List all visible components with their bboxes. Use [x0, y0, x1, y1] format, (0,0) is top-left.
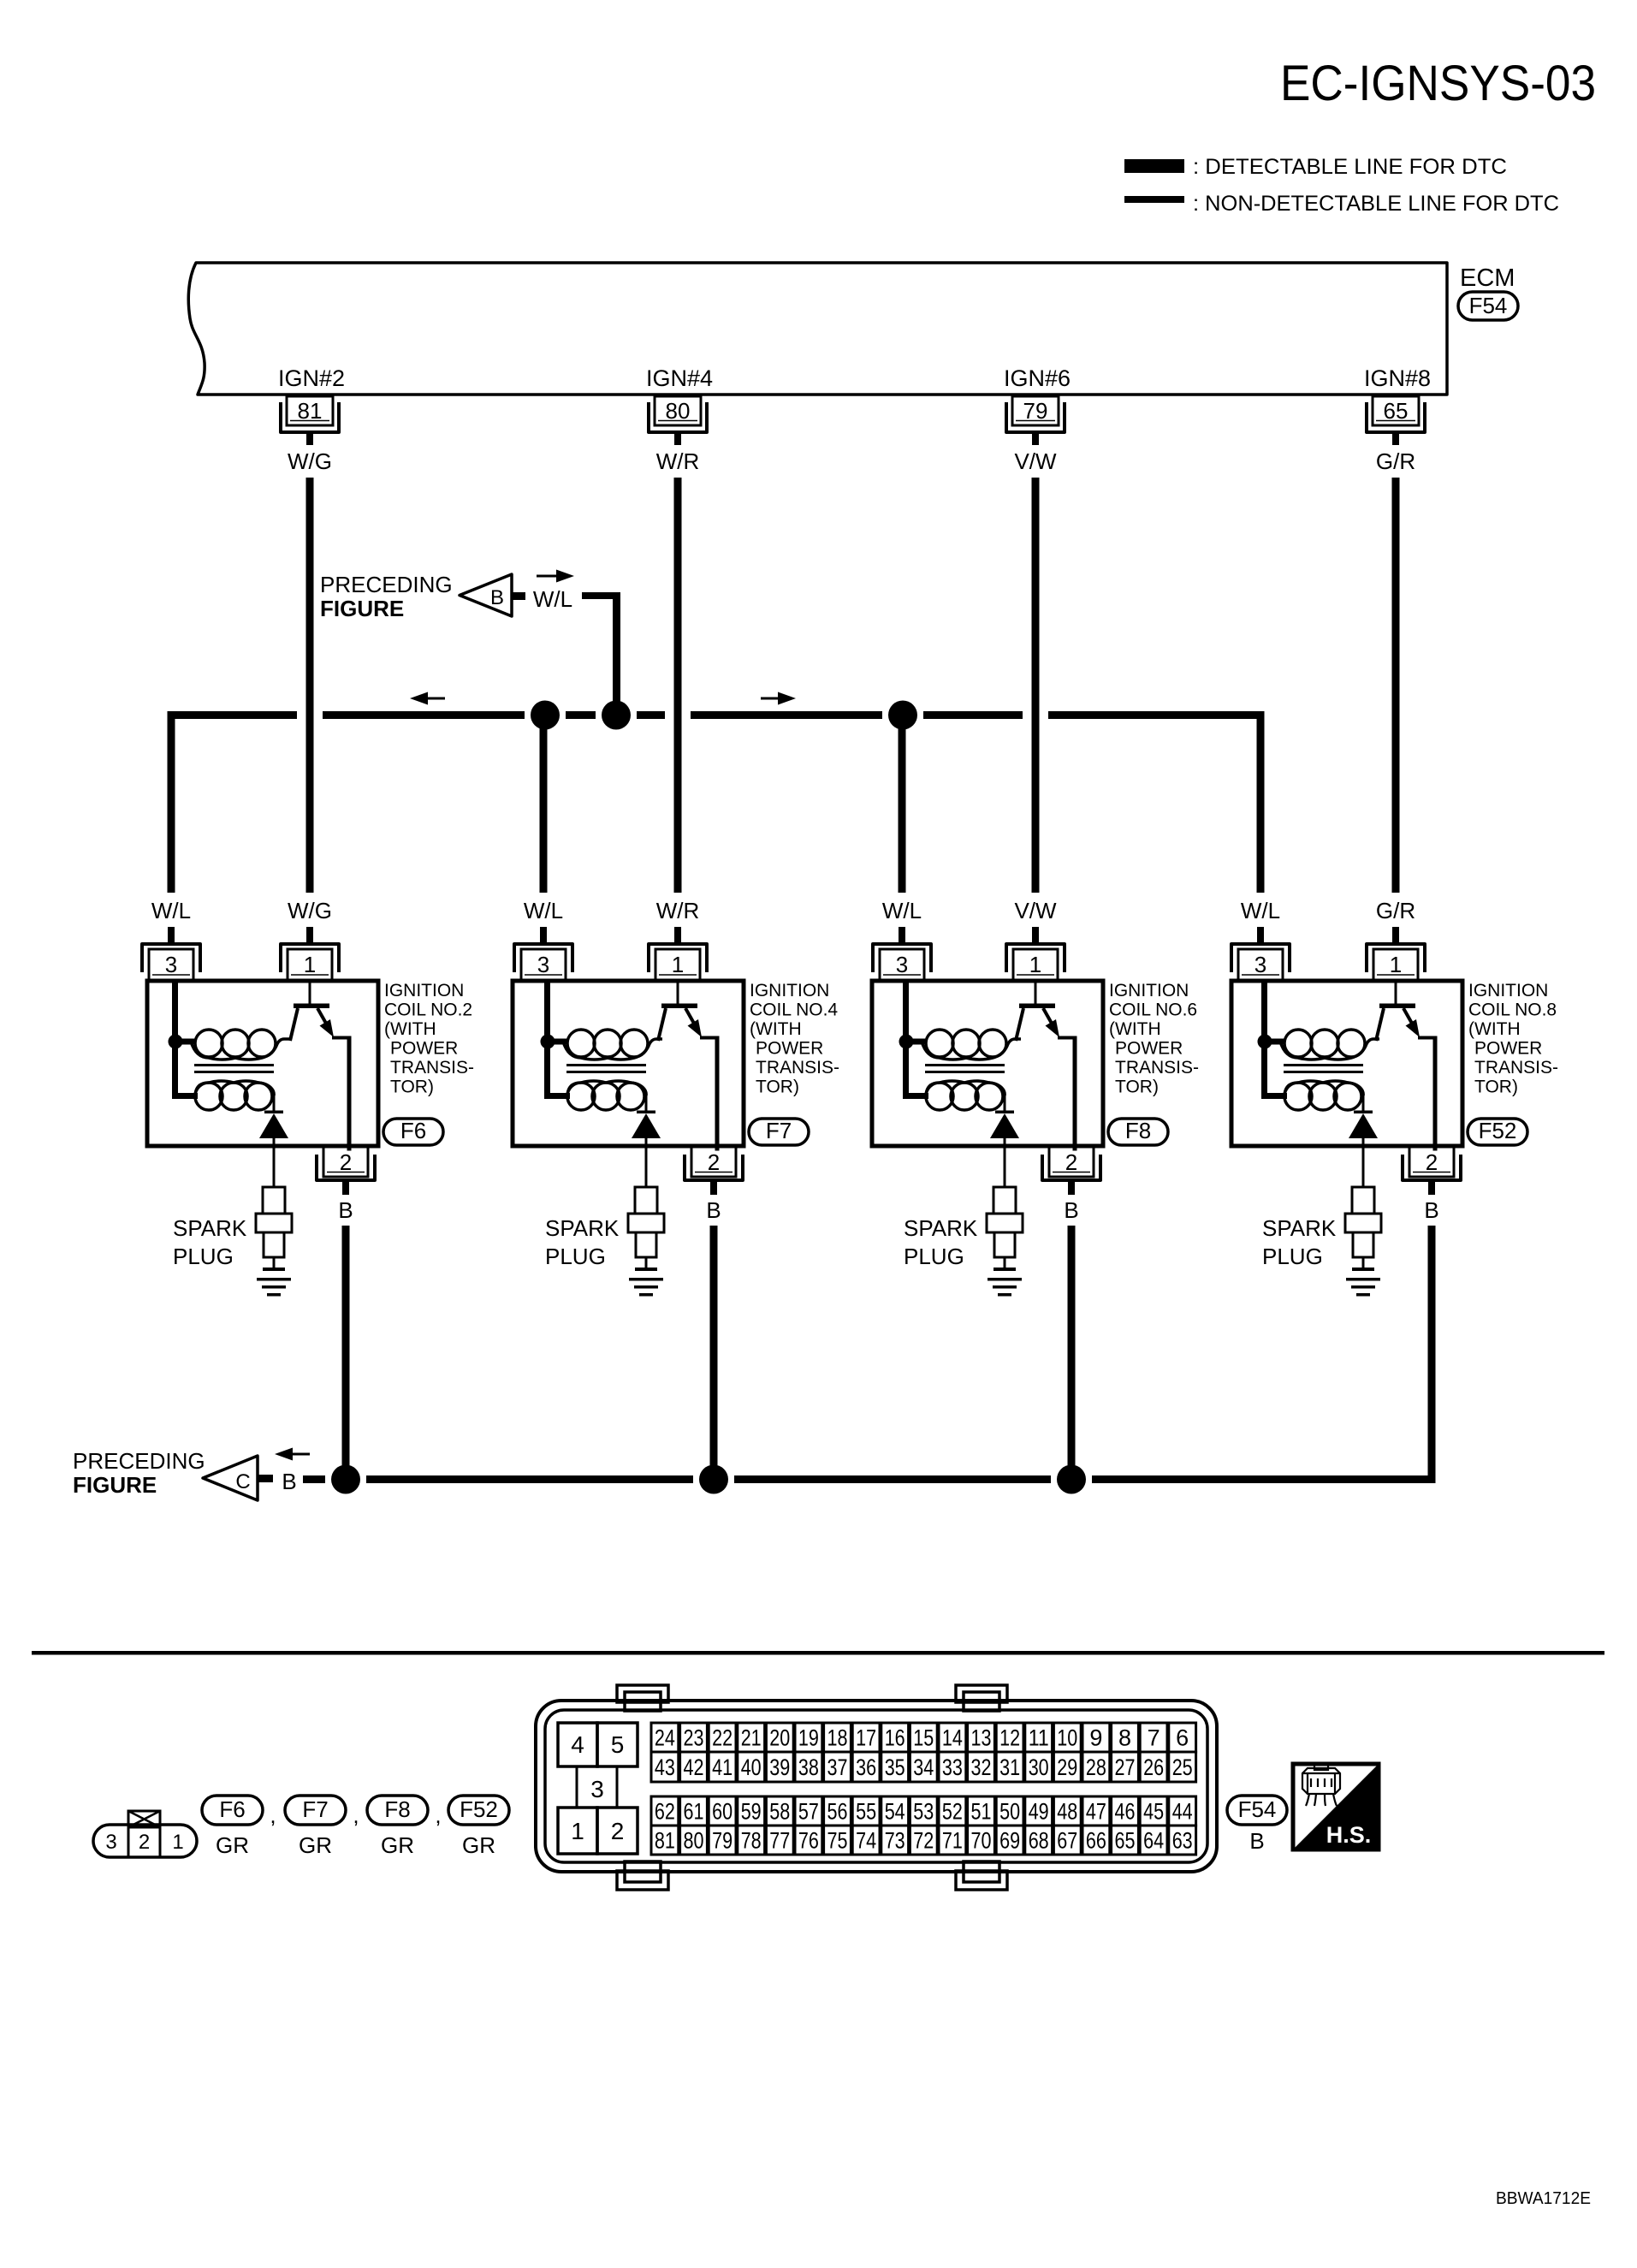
transformer primary winding coil no.8: [1280, 1030, 1379, 1060]
junction dot W/L bus from preceding figure: [602, 701, 631, 730]
svg-text:56: 56: [827, 1799, 848, 1825]
wire label W/L col 3: [882, 898, 922, 923]
svg-text:49: 49: [1029, 1799, 1049, 1825]
svg-text:75: 75: [827, 1828, 848, 1854]
coil no.4 label: [750, 981, 839, 1097]
svg-text:51: 51: [971, 1799, 992, 1825]
diode coil no.4: [632, 1111, 661, 1187]
svg-text:65: 65: [1384, 398, 1409, 424]
svg-text:1: 1: [304, 952, 316, 977]
wire label W/L col 4: [1241, 898, 1280, 923]
svg-text:W/L: W/L: [1241, 898, 1280, 923]
svg-text:F54: F54: [1238, 1796, 1277, 1822]
spark plug no.6 label: [904, 1215, 978, 1269]
svg-text:B: B: [1064, 1197, 1078, 1223]
coil no.2 pin 1 connector: [281, 927, 339, 980]
svg-text:12: 12: [999, 1725, 1020, 1751]
svg-text:TOR): TOR): [1115, 1078, 1159, 1097]
svg-text:B: B: [338, 1197, 353, 1223]
svg-text:33: 33: [942, 1754, 963, 1780]
connector label F52 GR: [448, 1796, 509, 1858]
svg-text:1: 1: [571, 1818, 584, 1844]
wire V/W from ECM pin 79 to coil pin 1: [1032, 478, 1040, 893]
ECM connector F54 label: [1458, 292, 1518, 320]
coil no.8 secondary to diode wire: [1362, 1092, 1365, 1112]
svg-text:24: 24: [655, 1725, 675, 1751]
svg-text:7: 7: [1148, 1725, 1160, 1751]
transformer core coil no.8: [1284, 1064, 1363, 1073]
coil no.2 secondary to diode wire: [273, 1092, 276, 1112]
svg-text:45: 45: [1143, 1799, 1164, 1825]
ECM pin 79 IGN#6: [1004, 365, 1071, 445]
wire label W/G lower: [288, 898, 332, 923]
wire label V/W lower: [1014, 898, 1057, 923]
svg-text:F52: F52: [1479, 1118, 1517, 1143]
svg-text:,: ,: [435, 1802, 441, 1828]
svg-text:32: 32: [971, 1754, 992, 1780]
svg-text:8: 8: [1118, 1725, 1131, 1751]
svg-text:20: 20: [769, 1725, 790, 1751]
svg-text:18: 18: [827, 1725, 848, 1751]
svg-text:IGNITION: IGNITION: [750, 981, 829, 1000]
svg-text:COIL NO.8: COIL NO.8: [1468, 1000, 1557, 1020]
svg-text:GR: GR: [462, 1832, 495, 1858]
svg-text:G/R: G/R: [1376, 448, 1415, 474]
ECM connector F54 GR label: [1227, 1796, 1287, 1854]
comma separator: [270, 1802, 276, 1828]
svg-text:G/R: G/R: [1376, 898, 1415, 923]
ignition coil no.8 box: [1231, 981, 1462, 1146]
svg-text:W/R: W/R: [656, 898, 700, 923]
svg-text:B: B: [706, 1197, 721, 1223]
svg-text:FIGURE: FIGURE: [73, 1472, 157, 1498]
svg-text:IGN#4: IGN#4: [646, 365, 713, 391]
wire W/L down to coil pin 3 col 1: [168, 711, 175, 893]
svg-text:IGNITION: IGNITION: [1468, 981, 1548, 1000]
svg-text:81: 81: [655, 1828, 675, 1854]
junction dot W/L bus at coil no.6: [888, 701, 917, 730]
svg-text:F7: F7: [302, 1796, 328, 1822]
svg-text:3: 3: [537, 952, 549, 977]
diode coil no.6: [990, 1111, 1019, 1187]
svg-text:TOR): TOR): [390, 1078, 434, 1097]
svg-text:POWER: POWER: [756, 1039, 823, 1059]
svg-text:F52: F52: [460, 1796, 498, 1822]
svg-text:(WITH: (WITH: [750, 1019, 802, 1039]
ignition coil no.4 box: [513, 981, 744, 1146]
svg-text:53: 53: [913, 1799, 934, 1825]
arrow left on W/L bus: [410, 692, 445, 705]
svg-text:73: 73: [885, 1828, 905, 1854]
title EC-IGNSYS-03: [1280, 56, 1596, 111]
svg-text:B: B: [1249, 1828, 1264, 1854]
svg-text:31: 31: [999, 1754, 1020, 1780]
svg-text:H.S.: H.S.: [1326, 1822, 1372, 1848]
svg-text:POWER: POWER: [390, 1039, 458, 1059]
svg-text:34: 34: [913, 1754, 934, 1780]
svg-text:SPARK: SPARK: [1262, 1215, 1337, 1241]
coil no.8 pin 1 connector: [1367, 927, 1425, 980]
ignition coil no.2 box: [147, 981, 378, 1146]
coil no.8 pin 3 connector: [1231, 927, 1290, 980]
svg-text:28: 28: [1086, 1754, 1106, 1780]
svg-text:50: 50: [999, 1799, 1020, 1825]
svg-text:81: 81: [298, 398, 323, 424]
coil no.2 junction dot: [169, 1035, 183, 1049]
svg-text:W/R: W/R: [656, 448, 700, 474]
transformer core coil no.6: [925, 1064, 1005, 1073]
svg-text:TRANSIS-: TRANSIS-: [390, 1058, 474, 1078]
svg-text:55: 55: [856, 1799, 876, 1825]
wire label G/R lower: [1376, 898, 1415, 923]
svg-text:79: 79: [712, 1828, 732, 1854]
svg-text:63: 63: [1172, 1828, 1193, 1854]
svg-text:C: C: [235, 1470, 250, 1493]
ECM pin 65 IGN#8: [1364, 365, 1431, 445]
coil no.4 pin 3 connector: [514, 927, 572, 980]
svg-text:69: 69: [999, 1828, 1020, 1854]
svg-text:30: 30: [1029, 1754, 1049, 1780]
svg-text:3: 3: [1254, 952, 1266, 977]
svg-text:3: 3: [165, 952, 177, 977]
svg-text:(WITH: (WITH: [1468, 1019, 1521, 1039]
power transistor coil no.4: [658, 981, 720, 1151]
svg-text:15: 15: [913, 1725, 934, 1751]
ground spark plug no.8: [1346, 1278, 1380, 1297]
connector label F8 GR: [367, 1796, 428, 1858]
svg-text:TOR): TOR): [1474, 1078, 1518, 1097]
wire label B coil no.2: [338, 1197, 353, 1223]
power transistor coil no.2: [290, 981, 352, 1151]
svg-text:W/L: W/L: [882, 898, 922, 923]
svg-text:68: 68: [1029, 1828, 1049, 1854]
svg-text:46: 46: [1115, 1799, 1136, 1825]
coil no.4 pin 1 connector: [649, 927, 707, 980]
svg-text:V/W: V/W: [1014, 448, 1057, 474]
connector label F6 GR: [202, 1796, 263, 1858]
svg-text:3: 3: [896, 952, 908, 977]
wire W/G from ECM pin 81 to coil pin 1: [306, 478, 314, 893]
svg-text:W/L: W/L: [151, 898, 191, 923]
svg-text:77: 77: [769, 1828, 790, 1854]
coil no.2 pin 2 connector: [317, 1147, 375, 1195]
svg-text:42: 42: [684, 1754, 704, 1780]
coil no.6 label: [1109, 981, 1199, 1097]
wire label B coil no.6: [1064, 1197, 1078, 1223]
comma separator: [353, 1802, 359, 1828]
wire label W/G upper: [288, 448, 332, 474]
spark plug no.4: [628, 1146, 664, 1271]
svg-text:B: B: [490, 586, 504, 609]
svg-text:60: 60: [712, 1799, 732, 1825]
svg-text:GR: GR: [299, 1832, 332, 1858]
svg-text:W/L: W/L: [533, 586, 572, 612]
coil no.6 pin 1 connector: [1006, 927, 1065, 980]
spark plug no.2: [256, 1146, 292, 1271]
svg-text:66: 66: [1086, 1828, 1106, 1854]
wire W/R from ECM pin 80 to coil pin 1: [674, 478, 682, 893]
svg-text:17: 17: [856, 1725, 876, 1751]
spark plug no.8 label: [1262, 1215, 1337, 1269]
wire label W/R upper: [656, 448, 700, 474]
svg-text:61: 61: [684, 1799, 704, 1825]
svg-text:: DETECTABLE LINE FOR DTC: : DETECTABLE LINE FOR DTC: [1193, 155, 1507, 179]
svg-text:1: 1: [1029, 952, 1041, 977]
ECM label: [1460, 264, 1515, 292]
svg-text:1: 1: [1390, 952, 1402, 977]
transformer primary winding coil no.6: [922, 1030, 1021, 1060]
svg-text:67: 67: [1057, 1828, 1077, 1854]
svg-text:78: 78: [741, 1828, 762, 1854]
svg-text:11: 11: [1029, 1725, 1049, 1751]
svg-text:,: ,: [270, 1802, 276, 1828]
ECM connector F54 housing: [536, 1685, 1217, 1890]
svg-text:58: 58: [769, 1799, 790, 1825]
svg-text:14: 14: [942, 1725, 963, 1751]
ECM pin 81 IGN#2: [278, 365, 345, 445]
coil no.6 wire to primary: [906, 1039, 926, 1045]
coil no.6 secondary to diode wire: [1004, 1092, 1006, 1112]
svg-text:PLUG: PLUG: [545, 1244, 606, 1269]
power transistor coil no.6: [1016, 981, 1077, 1151]
transformer core coil no.4: [566, 1064, 646, 1073]
svg-text:35: 35: [885, 1754, 905, 1780]
svg-text:76: 76: [798, 1828, 819, 1854]
svg-text:57: 57: [798, 1799, 819, 1825]
junction dot B bus col 2: [699, 1465, 728, 1494]
svg-text:1: 1: [172, 1831, 183, 1854]
coil no.2 label: [384, 981, 474, 1097]
svg-text:40: 40: [741, 1754, 762, 1780]
svg-text:F8: F8: [384, 1796, 410, 1822]
coil no.6 pin 2 connector: [1042, 1147, 1100, 1195]
svg-text:5: 5: [611, 1731, 625, 1758]
spark plug no.4 label: [545, 1215, 620, 1269]
svg-text:SPARK: SPARK: [904, 1215, 978, 1241]
wire W/L from preceding figure to bus: [582, 592, 620, 719]
svg-text:38: 38: [798, 1754, 819, 1780]
coil no.8 label: [1468, 981, 1558, 1097]
junction dot W/L bus at coil no.4: [531, 701, 560, 730]
wire B from coil no.2 pin 2: [342, 1226, 350, 1483]
svg-text:2: 2: [340, 1149, 352, 1175]
coil no.6 connector label F8: [1108, 1118, 1168, 1145]
svg-text:80: 80: [684, 1828, 704, 1854]
svg-text:3: 3: [105, 1831, 116, 1854]
spark plug no.2 label: [173, 1215, 247, 1269]
coil no.8 junction dot: [1258, 1035, 1272, 1049]
coil no.4 pin 2 connector: [685, 1147, 743, 1195]
svg-text:FIGURE: FIGURE: [320, 596, 404, 621]
coil no.4 wire to primary: [548, 1039, 567, 1045]
wire label V/W upper: [1014, 448, 1057, 474]
svg-text:BBWA1712E: BBWA1712E: [1496, 2189, 1591, 2208]
svg-text:F54: F54: [1469, 293, 1508, 318]
svg-text:PLUG: PLUG: [1262, 1244, 1323, 1269]
svg-text:(WITH: (WITH: [1109, 1019, 1161, 1039]
svg-text:W/L: W/L: [524, 898, 563, 923]
transformer secondary winding coil no.6: [926, 1081, 1005, 1110]
svg-text:3: 3: [590, 1776, 604, 1802]
wire B from coil no.8 pin 2: [1428, 1226, 1436, 1483]
svg-text:43: 43: [655, 1754, 675, 1780]
legend detectable line: [1124, 155, 1507, 179]
svg-text:COIL NO.4: COIL NO.4: [750, 1000, 838, 1020]
svg-text:IGNITION: IGNITION: [1109, 981, 1189, 1000]
ignition coil no.6 box: [872, 981, 1103, 1146]
svg-text:16: 16: [885, 1725, 905, 1751]
svg-text:1: 1: [672, 952, 684, 977]
wire B from coil no.4 pin 2: [710, 1226, 718, 1483]
svg-text:21: 21: [741, 1725, 762, 1751]
svg-text:48: 48: [1057, 1799, 1077, 1825]
coil no.8 pin 2 connector: [1403, 1147, 1461, 1195]
svg-text:23: 23: [684, 1725, 704, 1751]
wire W/L down to coil pin 3 col 4: [1257, 711, 1265, 893]
ground spark plug no.2: [257, 1278, 291, 1297]
svg-text:TRANSIS-: TRANSIS-: [1115, 1058, 1199, 1078]
svg-text:74: 74: [856, 1828, 876, 1854]
svg-text:37: 37: [827, 1754, 848, 1780]
coil no.2 pin 3 connector: [142, 927, 200, 980]
transformer primary winding coil no.4: [563, 1030, 662, 1060]
svg-text:62: 62: [655, 1799, 675, 1825]
svg-text:71: 71: [942, 1828, 963, 1854]
wire label W/L col 2: [524, 898, 563, 923]
coil no.4 internal wire from pin 3: [544, 981, 570, 1099]
svg-text:26: 26: [1143, 1754, 1164, 1780]
svg-text:25: 25: [1172, 1754, 1193, 1780]
junction dot B bus col 1: [331, 1465, 360, 1494]
svg-text:39: 39: [769, 1754, 790, 1780]
svg-text:2: 2: [1426, 1149, 1438, 1175]
wire label W/R lower: [656, 898, 700, 923]
ECM box: [188, 263, 1447, 395]
svg-text:44: 44: [1172, 1799, 1193, 1825]
B bus horizontal: [303, 1475, 1436, 1483]
svg-text:29: 29: [1057, 1754, 1077, 1780]
svg-text:PLUG: PLUG: [173, 1244, 234, 1269]
coil no.6 junction dot: [899, 1035, 914, 1049]
svg-text:PRECEDING: PRECEDING: [320, 572, 453, 597]
svg-text:4: 4: [571, 1731, 584, 1758]
figure code BBWA1712E: [1496, 2189, 1591, 2208]
svg-text:(WITH: (WITH: [384, 1019, 436, 1039]
transformer secondary winding coil no.4: [567, 1081, 646, 1110]
junction dot B bus col 3: [1057, 1465, 1086, 1494]
svg-text:52: 52: [942, 1799, 963, 1825]
svg-text:F8: F8: [1125, 1118, 1151, 1143]
svg-text:B: B: [282, 1469, 296, 1494]
wire label B at preceding figure C: [282, 1469, 296, 1494]
svg-text:SPARK: SPARK: [173, 1215, 247, 1241]
wire B from coil no.6 pin 2: [1068, 1226, 1076, 1483]
svg-text:2: 2: [708, 1149, 720, 1175]
coil no.2 wire to primary: [175, 1039, 195, 1045]
coil no.4 connector label F7: [749, 1118, 809, 1145]
coil no.4 junction dot: [541, 1035, 555, 1049]
svg-text:SPARK: SPARK: [545, 1215, 620, 1241]
svg-text:59: 59: [741, 1799, 762, 1825]
svg-text:64: 64: [1143, 1828, 1164, 1854]
diode coil no.8: [1349, 1111, 1378, 1187]
svg-text:W/G: W/G: [288, 898, 332, 923]
svg-text:GR: GR: [216, 1832, 249, 1858]
svg-text:79: 79: [1023, 398, 1048, 424]
legend non-detectable line: [1124, 192, 1559, 216]
svg-text:TRANSIS-: TRANSIS-: [756, 1058, 839, 1078]
coil no.6 pin 3 connector: [873, 927, 931, 980]
power transistor coil no.8: [1376, 981, 1438, 1151]
ground spark plug no.4: [629, 1278, 663, 1297]
svg-text:9: 9: [1089, 1725, 1102, 1751]
svg-text:F6: F6: [400, 1118, 426, 1143]
svg-text:EC-IGNSYS-03: EC-IGNSYS-03: [1280, 56, 1596, 111]
svg-text:54: 54: [885, 1799, 905, 1825]
wire label G/R upper: [1376, 448, 1415, 474]
svg-text:27: 27: [1115, 1754, 1136, 1780]
coil no.8 wire to primary: [1265, 1039, 1284, 1045]
W/L bus horizontal: [168, 711, 1265, 719]
svg-text:PLUG: PLUG: [904, 1244, 964, 1269]
coil no.8 connector label F52: [1468, 1118, 1527, 1145]
spark plug no.6: [987, 1146, 1023, 1271]
svg-text:V/W: V/W: [1014, 898, 1057, 923]
preceding figure reference C: [73, 1448, 273, 1500]
svg-text:36: 36: [856, 1754, 876, 1780]
coil no.8 internal wire from pin 3: [1261, 981, 1287, 1099]
ground spark plug no.6: [988, 1278, 1022, 1297]
wire W/L down to coil pin 3 col 2: [540, 711, 548, 893]
wire label W/L at preceding figure: [533, 586, 572, 612]
svg-text:ECM: ECM: [1460, 264, 1515, 292]
svg-text:,: ,: [353, 1802, 359, 1828]
ignition coil connector pinout (3-2-1): [93, 1811, 197, 1857]
coil no.2 connector label F6: [383, 1118, 443, 1145]
ECM pin 80 IGN#4: [646, 365, 713, 445]
svg-text:6: 6: [1176, 1725, 1189, 1751]
arrow right on W/L bus: [761, 692, 796, 705]
arrow right above W/L: [537, 570, 574, 583]
svg-text:2: 2: [1065, 1149, 1077, 1175]
connector label F7 GR: [285, 1796, 346, 1858]
svg-text:22: 22: [712, 1725, 732, 1751]
transformer core coil no.2: [194, 1064, 274, 1073]
H.S. harness symbol: [1293, 1763, 1379, 1849]
ECM connector small pins 1-5: [558, 1723, 638, 1854]
svg-text:COIL NO.2: COIL NO.2: [384, 1000, 472, 1020]
wire label W/L col 1: [151, 898, 191, 923]
svg-text:F7: F7: [766, 1118, 792, 1143]
wire label B coil no.4: [706, 1197, 721, 1223]
arrow left above B bus: [275, 1448, 310, 1461]
svg-text:GR: GR: [381, 1832, 414, 1858]
coil no.4 secondary to diode wire: [645, 1092, 648, 1112]
svg-text:POWER: POWER: [1474, 1039, 1542, 1059]
svg-text:: NON-DETECTABLE LINE FOR DTC: : NON-DETECTABLE LINE FOR DTC: [1193, 192, 1559, 216]
svg-text:COIL NO.6: COIL NO.6: [1109, 1000, 1197, 1020]
svg-text:13: 13: [971, 1725, 992, 1751]
transformer secondary winding coil no.8: [1284, 1081, 1363, 1110]
coil no.2 internal wire from pin 3: [172, 981, 198, 1099]
svg-text:80: 80: [666, 398, 691, 424]
ECM connector pin grid: [651, 1723, 1196, 1855]
svg-text:70: 70: [971, 1828, 992, 1854]
svg-text:72: 72: [913, 1828, 934, 1854]
svg-text:POWER: POWER: [1115, 1039, 1183, 1059]
svg-text:IGN#8: IGN#8: [1364, 365, 1431, 391]
svg-text:F6: F6: [219, 1796, 245, 1822]
